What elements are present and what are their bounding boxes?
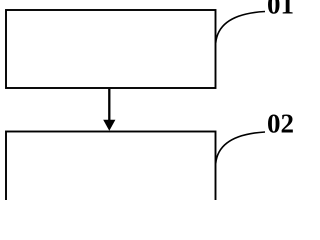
arrowhead — [103, 120, 115, 131]
leader line to 01 — [216, 12, 265, 44]
svg-text:01: 01 — [267, 0, 294, 20]
process box 02 — [6, 132, 216, 222]
process box 01 — [6, 10, 216, 88]
leader line to 02 — [216, 132, 265, 164]
arrow shaft — [108, 89, 110, 122]
svg-text:02: 02 — [267, 108, 294, 138]
